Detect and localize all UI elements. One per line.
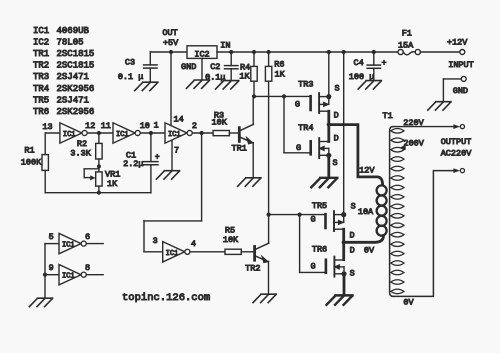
svg-text:TR5: TR5 xyxy=(33,95,49,105)
svg-text:0V: 0V xyxy=(364,245,375,255)
svg-text:+: + xyxy=(382,59,387,68)
svg-text:TR2: TR2 xyxy=(33,61,49,71)
svg-text:5: 5 xyxy=(49,232,54,242)
svg-text:S: S xyxy=(350,269,355,279)
svg-text:TR1: TR1 xyxy=(33,49,49,59)
svg-text:IC1: IC1 xyxy=(63,131,76,139)
svg-text:+12V: +12V xyxy=(447,37,468,47)
svg-text:topinc.126.com: topinc.126.com xyxy=(122,292,210,304)
svg-text:OUTPUT: OUTPUT xyxy=(441,137,472,147)
svg-text:S: S xyxy=(333,158,338,168)
svg-text:IC1: IC1 xyxy=(168,131,181,139)
svg-text:S: S xyxy=(351,202,356,212)
svg-text:C4: C4 xyxy=(354,58,364,68)
svg-text:G: G xyxy=(295,99,300,109)
svg-text:S: S xyxy=(335,84,340,94)
svg-text:IC2: IC2 xyxy=(33,38,49,48)
svg-text:4: 4 xyxy=(191,239,196,249)
svg-text:12V: 12V xyxy=(359,165,375,175)
svg-text:2: 2 xyxy=(192,121,197,131)
svg-text:G: G xyxy=(310,261,315,271)
svg-text:TR6: TR6 xyxy=(312,244,327,254)
svg-text:R2: R2 xyxy=(77,139,87,149)
svg-text:TR4: TR4 xyxy=(33,84,49,94)
svg-text:TR3: TR3 xyxy=(33,72,49,82)
svg-text:IN: IN xyxy=(220,40,230,50)
svg-text:C3: C3 xyxy=(125,58,135,68)
svg-text:2SC1815: 2SC1815 xyxy=(57,49,95,59)
svg-text:IC1: IC1 xyxy=(116,131,129,139)
svg-text:IC1: IC1 xyxy=(62,242,75,250)
svg-text:12: 12 xyxy=(85,121,95,131)
svg-text:100K: 100K xyxy=(21,157,42,167)
svg-text:+5V: +5V xyxy=(163,38,179,48)
svg-text:2SK2956: 2SK2956 xyxy=(57,107,95,117)
svg-text:9: 9 xyxy=(49,263,54,273)
svg-text:11: 11 xyxy=(101,121,111,131)
svg-text:3.3K: 3.3K xyxy=(70,149,91,159)
svg-text:AC220V: AC220V xyxy=(441,149,473,159)
svg-text:TR2: TR2 xyxy=(245,264,260,274)
svg-text:13: 13 xyxy=(42,122,52,132)
svg-text:TR5: TR5 xyxy=(312,201,327,211)
svg-text:1: 1 xyxy=(154,121,159,131)
svg-text:F1: F1 xyxy=(402,29,412,39)
svg-text:200V: 200V xyxy=(403,138,424,148)
svg-text:OUT: OUT xyxy=(162,28,177,38)
svg-text:TR4: TR4 xyxy=(298,123,313,133)
svg-text:7: 7 xyxy=(174,146,179,156)
svg-text:0V: 0V xyxy=(403,298,414,308)
svg-text:15A: 15A xyxy=(398,41,414,51)
svg-text:GND: GND xyxy=(181,62,196,72)
svg-text:IC1: IC1 xyxy=(166,250,179,258)
svg-text:G: G xyxy=(310,215,315,225)
svg-text:VR1: VR1 xyxy=(105,169,120,179)
svg-text:14: 14 xyxy=(173,115,183,125)
svg-text:INPUT: INPUT xyxy=(448,60,474,70)
svg-text:R6: R6 xyxy=(274,60,284,70)
svg-text:1K: 1K xyxy=(239,72,250,82)
svg-text:TR1: TR1 xyxy=(232,144,247,154)
svg-text:0.1 μ: 0.1 μ xyxy=(118,72,144,82)
svg-text:100 μ: 100 μ xyxy=(349,72,375,82)
svg-text:D: D xyxy=(334,111,339,121)
svg-text:2.2μ: 2.2μ xyxy=(123,159,143,169)
svg-text:+: + xyxy=(155,153,160,162)
svg-text:TR6: TR6 xyxy=(33,107,49,117)
svg-text:6: 6 xyxy=(85,232,90,242)
svg-text:IC1: IC1 xyxy=(62,273,75,281)
svg-text:IC1: IC1 xyxy=(33,26,49,36)
svg-text:G: G xyxy=(296,143,301,153)
svg-text:2SJ471: 2SJ471 xyxy=(57,95,89,105)
svg-text:TR3: TR3 xyxy=(298,79,313,89)
svg-text:2SK2956: 2SK2956 xyxy=(57,84,95,94)
svg-text:D: D xyxy=(350,230,355,240)
svg-text:10K: 10K xyxy=(212,118,228,128)
svg-text:0.1μ: 0.1μ xyxy=(205,73,225,83)
svg-text:D: D xyxy=(334,133,339,143)
svg-text:10: 10 xyxy=(140,121,150,131)
svg-text:1K: 1K xyxy=(275,69,286,79)
svg-text:1K: 1K xyxy=(107,179,118,189)
svg-text:2SC1815: 2SC1815 xyxy=(57,61,95,71)
svg-text:D: D xyxy=(350,246,355,256)
svg-text:T1: T1 xyxy=(382,111,392,121)
svg-text:10A: 10A xyxy=(358,207,374,217)
svg-text:C2: C2 xyxy=(210,62,220,72)
svg-text:4069UB: 4069UB xyxy=(57,26,90,36)
svg-text:2SJ471: 2SJ471 xyxy=(57,72,89,82)
svg-text:3: 3 xyxy=(153,236,158,246)
svg-text:8: 8 xyxy=(85,263,90,273)
svg-text:GND: GND xyxy=(453,86,468,96)
svg-text:10K: 10K xyxy=(223,235,239,245)
svg-text:R1: R1 xyxy=(24,145,34,155)
svg-text:78L05: 78L05 xyxy=(57,38,84,48)
